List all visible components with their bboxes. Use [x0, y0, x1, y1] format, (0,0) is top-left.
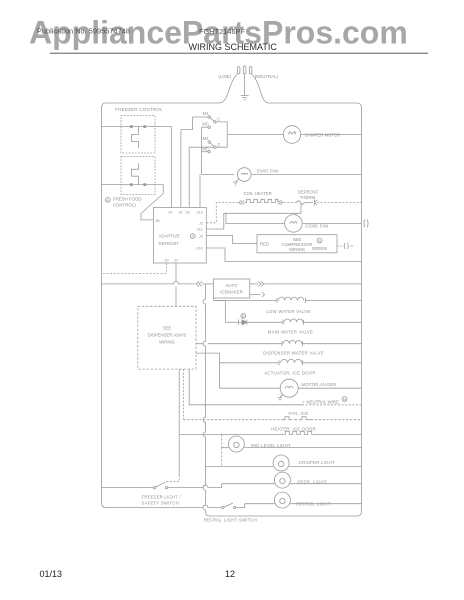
auto icemaker box: [213, 279, 249, 298]
wire icemaker aux stub: [250, 292, 265, 297]
switch blade M3-C: [210, 118, 214, 121]
wire bundle v1 to J4: [171, 127, 173, 208]
freezer control box upper (dashed): [121, 116, 155, 154]
switch terminal refrig right: [233, 506, 235, 508]
svg-text:CONTROL): CONTROL): [113, 202, 136, 207]
wire icemaker row from left rail: [102, 281, 196, 284]
wire evap fan to rail: [251, 174, 361, 176]
heater ice door element: [283, 431, 311, 434]
wire J2 to heater row (dashed): [206, 203, 238, 223]
wire refrig light row: [245, 503, 362, 505]
svg-text:J13: J13: [196, 209, 203, 214]
switch contact MC lower: [208, 151, 210, 153]
evap fan windings: [242, 173, 248, 174]
svg-text:M3: M3: [203, 111, 209, 116]
svg-text:FREEZER CONTROL: FREEZER CONTROL: [115, 107, 163, 112]
circled A adc: [190, 234, 195, 239]
wire safety switch row: [102, 484, 222, 488]
diode ice water: [239, 320, 247, 326]
svg-text:FRZR. LIGHT: FRZR. LIGHT: [298, 479, 327, 484]
wire actuator row: [220, 362, 362, 364]
circled A fresh food: [105, 197, 110, 202]
svg-text:MC: MC: [202, 122, 209, 127]
svg-text:WIRING: WIRING: [159, 340, 176, 345]
wire frzr light row: [222, 483, 362, 485]
wire column v2: [225, 301, 227, 323]
wire bottom boundary: [206, 512, 358, 517]
svg-text:RED: RED: [260, 242, 269, 247]
connector chevrons icemaker right: [258, 281, 264, 286]
svg-text:FAN, ICE: FAN, ICE: [289, 411, 309, 416]
svg-text:J3: J3: [178, 209, 183, 214]
solenoid coil low water valve: [277, 297, 306, 303]
svg-text:GREEN: GREEN: [312, 246, 327, 251]
damper motor windings: [288, 131, 295, 135]
plug prong left: [237, 67, 240, 74]
fresh food thermostat switch terminal left: [130, 184, 132, 186]
wire J11 to therm sense: [206, 213, 301, 229]
wire low water valve row: [214, 300, 362, 302]
wire J7 drop to dispenser box: [175, 263, 177, 306]
svg-text:NEUTRAL WIRE: NEUTRAL WIRE: [307, 399, 339, 404]
svg-text:SAFETY SWITCH: SAFETY SWITCH: [142, 500, 179, 505]
svg-text:12: 12: [225, 569, 235, 579]
wire MC link vertical: [201, 127, 203, 174]
wire heater row to rail dashed: [317, 202, 362, 204]
switch common C upper terminal: [214, 121, 216, 123]
circled B diode: [241, 313, 246, 318]
svg-text:DAMPER MOTOR: DAMPER MOTOR: [305, 133, 341, 138]
svg-text:J8: J8: [185, 209, 190, 214]
damper motor M1: [283, 126, 301, 144]
wire dispenser box stub to actuator: [196, 353, 220, 388]
wire therm drop to cond fan: [295, 213, 297, 215]
wire J13 riser: [199, 175, 201, 208]
svg-text:C: C: [217, 116, 220, 121]
connector chevrons coil heater right: [278, 200, 283, 204]
wire plug right curve: [252, 74, 269, 103]
svg-text:A: A: [318, 238, 321, 243]
solenoid coil actuator ice door: [279, 359, 303, 365]
svg-text:J7: J7: [174, 257, 179, 262]
cond fan windings: [290, 222, 297, 224]
wire neutral dash: [302, 404, 362, 406]
svg-text:B: B: [242, 314, 245, 319]
svg-text:DEFROST: DEFROST: [298, 189, 319, 194]
wire compressor box to connector dashed: [337, 245, 344, 247]
svg-text:J1: J1: [199, 233, 204, 238]
wire right rail: [357, 108, 362, 517]
lamp refrig light: [274, 492, 290, 508]
wire main water valve row left: [226, 321, 238, 323]
svg-text:COIL HEATER: COIL HEATER: [244, 191, 272, 196]
auger motor: [280, 379, 298, 397]
svg-text:SEE: SEE: [163, 326, 172, 331]
svg-text:J9: J9: [164, 257, 169, 262]
svg-text:AUTO: AUTO: [226, 283, 239, 288]
wire mid level light row: [222, 447, 362, 449]
fresh food thermostat switch terminal right: [144, 184, 146, 186]
wire outer boundary top-right: [269, 103, 362, 108]
switch blade M2-C: [210, 143, 214, 146]
svg-text:REFRIG. LIGHT: REFRIG. LIGHT: [296, 502, 331, 507]
svg-text:HEATER, ICE DOOR: HEATER, ICE DOOR: [271, 426, 316, 431]
freezer thermostat switch terminal right: [144, 126, 146, 128]
svg-text:01/13: 01/13: [40, 569, 63, 579]
switch blade refrig: [224, 503, 233, 507]
tick neutral label: [303, 401, 305, 403]
wire dispenser box to neutral row: [189, 369, 302, 405]
freezer control box lower (dashed): [121, 157, 155, 195]
evap fan ground: [233, 179, 239, 186]
fan ice element: [283, 417, 311, 420]
circled N neutral: [342, 397, 347, 402]
wire mid to crisper feed: [221, 448, 223, 467]
lamp crisper light: [273, 455, 289, 471]
svg-text:WIRING: WIRING: [289, 247, 306, 252]
wire column v1 from icemaker row to bottom: [203, 284, 205, 512]
wire icemaker row to rail: [264, 283, 362, 285]
wire heater row dashed mid: [284, 202, 297, 204]
lamp freezer light: [274, 472, 290, 488]
wire common link to damper: [216, 122, 283, 147]
svg-text:ACTUATOR, ICE DOOR: ACTUATOR, ICE DOOR: [264, 371, 315, 376]
wire plug left curve: [219, 74, 238, 103]
svg-text:FGHT2146PF: FGHT2146PF: [199, 27, 245, 36]
solenoid coil main water valve: [283, 319, 304, 325]
connector compressor ground: [344, 243, 353, 249]
wire bundle v2 to J3: [180, 130, 182, 208]
wire plug center to ground: [244, 74, 246, 96]
circled A compressor: [317, 238, 322, 243]
svg-text:MAIN WATER VALVE: MAIN WATER VALVE: [268, 330, 313, 335]
wire icemaker box out right: [250, 283, 258, 285]
defrost thermostat symbol: [296, 201, 305, 214]
plug prong right: [249, 67, 252, 74]
connector chevrons icemaker left: [196, 281, 202, 286]
wire refrig switch to lamp row: [236, 504, 245, 508]
switch contact MC upper: [208, 126, 210, 128]
defrost thermostat contact: [305, 200, 317, 206]
switch terminal safety left: [153, 486, 155, 488]
svg-text:REFRIG. LIGHT SWITCH: REFRIG. LIGHT SWITCH: [204, 518, 257, 523]
svg-text:ICEMAKER: ICEMAKER: [220, 289, 242, 294]
svg-text:J11: J11: [196, 227, 203, 232]
auger motor ground: [278, 395, 283, 402]
svg-text:N: N: [343, 397, 346, 402]
evap fan motor: [238, 168, 252, 182]
compressor wiring box: [257, 235, 337, 253]
svg-text:THERM.: THERM.: [300, 195, 316, 200]
svg-text:DISPENSER WATER VALVE: DISPENSER WATER VALVE: [263, 351, 324, 356]
wire rail through fresh food thermostat to J6: [102, 185, 164, 220]
adaptive defrost control box: [154, 208, 207, 264]
svg-text:MOTOR,AUGER: MOTOR,AUGER: [302, 382, 337, 387]
wire left rail: [102, 108, 107, 508]
fresh food thermostat capillary: [132, 163, 139, 184]
svg-text:A: A: [191, 234, 194, 239]
svg-text:EVAP. FAN: EVAP. FAN: [257, 169, 278, 174]
cond fan motor: [285, 215, 303, 233]
svg-text:A: A: [106, 198, 109, 203]
auger motor windings: [285, 387, 293, 389]
svg-text:FRESH FOOD: FRESH FOOD: [113, 196, 142, 201]
svg-text:ADAPTIVE: ADAPTIVE: [159, 234, 180, 239]
wire cond fan row: [226, 213, 362, 223]
wire icemaker box bottom stub to low valve row: [214, 298, 226, 301]
header rule: [50, 52, 428, 54]
svg-text:Publication No. 5995574748: Publication No. 5995574748: [37, 27, 130, 36]
ground symbol plug: [241, 96, 249, 100]
coil heater element (square wave): [244, 199, 278, 202]
svg-text:J10: J10: [196, 246, 203, 251]
svg-text:DISPENSER ASM'S: DISPENSER ASM'S: [148, 333, 187, 338]
wire M3 feed: [181, 117, 208, 130]
wire dispenser box to safety switch: [178, 369, 180, 475]
svg-text:MC: MC: [202, 146, 209, 151]
wire crisper light row: [206, 466, 362, 468]
wire auger motor row: [220, 387, 362, 389]
svg-text:J4: J4: [168, 209, 173, 214]
wire damper to rail: [301, 134, 362, 136]
switch blade safety: [156, 482, 166, 487]
svg-text:CRISPER LIGHT: CRISPER LIGHT: [299, 460, 335, 465]
wire MC lower to link: [202, 151, 209, 153]
connector pin at rail cond fan: [364, 220, 368, 230]
wire dispenser box to fan ice row (dashed): [183, 369, 185, 420]
wire J1 to compressor RED: [206, 236, 257, 244]
switch terminal refrig left: [222, 506, 224, 508]
wire MC upper to link: [202, 126, 209, 128]
switch contact M2: [208, 141, 210, 143]
switch common C lower terminal: [214, 146, 216, 148]
wire bottom row to refrig switch: [106, 505, 222, 507]
svg-text:J2: J2: [199, 220, 204, 225]
wire diode to coil: [247, 321, 362, 323]
svg-text:LOW WATER VALVE: LOW WATER VALVE: [266, 309, 310, 314]
svg-text:DEFROST: DEFROST: [159, 241, 180, 246]
wire J9 dashed drop: [102, 263, 167, 273]
wire outer boundary top-left: [102, 103, 220, 108]
plug prong center: [243, 66, 246, 74]
svg-text:(NEUTRAL): (NEUTRAL): [255, 74, 279, 79]
wire dispenser valve row: [196, 343, 362, 345]
svg-text:WIRING SCHEMATIC: WIRING SCHEMATIC: [189, 42, 278, 52]
freezer thermostat switch terminal left: [130, 126, 132, 128]
svg-text:C: C: [217, 142, 220, 147]
svg-text:FREEZER LIGHT /: FREEZER LIGHT /: [142, 494, 182, 499]
svg-text:(LINE): (LINE): [218, 74, 231, 79]
lamp mid level light: [228, 436, 244, 452]
svg-text:J6: J6: [155, 218, 160, 223]
svg-text:M2: M2: [203, 136, 209, 141]
wire fan ice row: [184, 419, 362, 421]
wire M2 feed: [189, 147, 214, 207]
wire MC link down to evap fan: [202, 174, 235, 176]
switch contact M3: [208, 116, 210, 118]
wire rail to freezer thermostat: [102, 126, 131, 128]
wire mid light feed: [221, 435, 223, 448]
wire J10 to neutral side: [206, 248, 361, 262]
svg-text:COND. FAN: COND. FAN: [305, 223, 328, 228]
ice dispenser asm box: [138, 306, 196, 369]
wire to auto icemaker box: [202, 283, 213, 285]
svg-text:MID LEVEL LIGHT: MID LEVEL LIGHT: [251, 443, 291, 448]
connector chevrons coil heater left: [239, 200, 244, 204]
wire heater ice door row: [179, 434, 361, 436]
wire freezer thermostat capillary: [132, 127, 139, 148]
solenoid coil dispenser water valve: [282, 340, 303, 346]
wire freezer thermostat through: [130, 126, 172, 128]
switch terminal safety right: [165, 486, 167, 488]
